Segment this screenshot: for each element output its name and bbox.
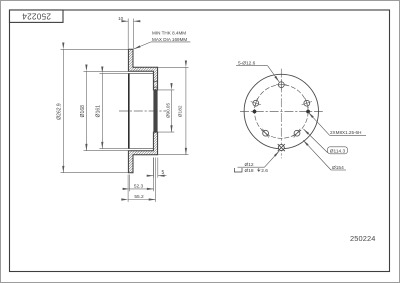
bolt hole lower-right (306°) [293,129,301,138]
M8 thread hole left (180°) [253,110,257,114]
svg-text:250224: 250224 [350,234,376,243]
drum mouth edge line (Ø161 opening) [128,73,130,148]
dim 10 (plate thickness, top) [118,16,140,49]
disc upper metal section (plate + hat top wall + flange upper) [128,49,157,90]
svg-text:2XM8X1.25-6H: 2XM8X1.25-6H [330,130,361,135]
leader 5-Ø12.6 [236,61,279,82]
leader 2XM8X1.25-6H [308,112,366,135]
bolt hole upper-left (162°) [251,98,261,108]
svg-text:Ø182: Ø182 [178,105,184,117]
svg-text:Ø161: Ø161 [96,105,102,117]
dim Ø90.05 [158,90,175,132]
dim Ø161 [96,73,131,148]
section center line (axis) [119,110,166,112]
drum mouth lip line upper (Ø161) [129,72,154,74]
disc lower metal section (mirror) [128,132,157,173]
counterbore note Ø12 / Ø18 depth 2.6 [234,151,279,174]
dim Ø168 [80,71,129,150]
svg-text:MIN THK 8.4MM: MIN THK 8.4MM [152,31,186,36]
svg-text:5-Ø12.6: 5-Ø12.6 [238,61,256,67]
svg-text:Ø154: Ø154 [332,165,344,171]
dim 55.2 [128,158,155,202]
drum mouth lip line lower (Ø161) [129,148,154,150]
svg-text:Ø18: Ø18 [245,168,254,174]
svg-text:Ø262.9: Ø262.9 [57,103,63,120]
svg-text:52.3: 52.3 [134,183,144,189]
leader note MIN THK / MAX DIA [134,31,191,49]
dim Ø182 [158,67,189,154]
svg-text:Ø114.3: Ø114.3 [330,149,346,155]
bolt hole top (90°) [276,79,286,90]
dim Ø262.9 [57,49,129,172]
svg-text:55.2: 55.2 [134,194,144,200]
dim 52.3 [129,158,153,192]
bolt circle Ø114.3 (dashed) [254,85,308,139]
outer circle (hat face, Ø154) [244,74,318,148]
leader Ø154 [303,140,346,171]
dim 5 (flange thickness, bottom right) [149,158,167,178]
svg-text:2.6: 2.6 [261,168,268,174]
bolt hole lower-left (234°) [261,129,269,138]
flange centre bore (dark bar) [153,90,157,132]
bolt hole edges in upper flange [153,81,157,87]
part number bottom right [350,234,376,243]
svg-text:10: 10 [118,16,124,21]
M8 thread hole right (0°) [306,110,310,114]
title box top-left with part number 250224 (rotated 180) [10,10,64,22]
counterbore hole bottom (270°) [278,144,285,151]
svg-text:250224: 250224 [22,12,51,22]
front view vertical centerline [280,69,282,159]
svg-text:Ø90.05: Ø90.05 [165,103,170,119]
svg-text:MAX DIA 169MM: MAX DIA 169MM [152,37,187,42]
bolt hole upper-right (18°) [302,98,312,108]
svg-text:Ø168: Ø168 [80,105,86,117]
front view horizontal centerline [240,111,323,113]
leader Ø114.3 (boxed) [304,129,348,155]
svg-text:5: 5 [162,170,165,176]
